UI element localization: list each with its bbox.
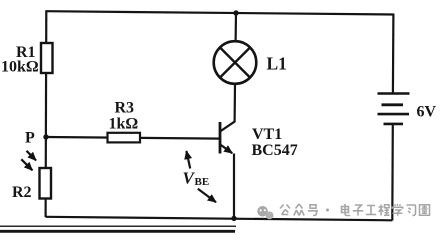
bottom thick rule <box>0 230 235 233</box>
svg-text:BC547: BC547 <box>252 142 298 159</box>
transistor VT1 emitter diagonal with arrow <box>220 144 233 153</box>
bottom thin rule <box>0 225 236 227</box>
svg-text:R2: R2 <box>12 184 32 201</box>
resistor R1 <box>41 43 53 73</box>
svg-text:10kΩ: 10kΩ <box>1 59 39 76</box>
photoresistor R2 <box>40 168 52 199</box>
battery plate 3 long <box>378 113 410 116</box>
lamp L1 stem top <box>235 13 238 42</box>
svg-text:VT1: VT1 <box>252 126 282 143</box>
watermark text 程 <box>379 205 390 216</box>
watermark logo small bubble <box>266 212 274 220</box>
watermark text 学 <box>392 204 402 216</box>
wire: emitter vertical down <box>233 154 235 219</box>
svg-text:P: P <box>25 130 35 147</box>
wire: right vertical rail (top section to battery) <box>392 14 395 94</box>
svg-text:R3: R3 <box>115 100 135 117</box>
watermark text separator dot <box>326 209 329 212</box>
lamp L1 cross line 2 <box>220 48 250 78</box>
battery plate 4 short (bottom) <box>384 123 404 126</box>
light arrow 1 into R2 <box>27 151 37 161</box>
junction dot emitter / bottom rail <box>231 216 236 221</box>
svg-text:6V: 6V <box>417 104 437 121</box>
watermark text 众 <box>294 204 304 216</box>
watermark text 圈 <box>420 205 430 215</box>
svg-text:BE: BE <box>195 176 210 188</box>
svg-text:1kΩ: 1kΩ <box>109 116 139 133</box>
lamp L1 cross line 1 <box>220 48 250 78</box>
transistor VT1 base bar <box>219 122 222 154</box>
watermark text 公 <box>280 205 290 215</box>
V_BE up arrow <box>186 151 190 169</box>
resistor R3 <box>108 133 141 143</box>
wire: top rail from left corner to right corner <box>47 11 394 14</box>
wire: right vertical rail (battery to bottom) <box>391 124 394 221</box>
battery plate 2 short <box>382 103 404 106</box>
watermark logo big bubble <box>257 206 268 217</box>
node P junction dot <box>43 134 48 139</box>
watermark text 子 <box>353 205 363 216</box>
watermark text 习 <box>407 205 416 216</box>
transistor VT1 collector diagonal <box>220 121 236 132</box>
wire: bottom rail <box>46 217 393 221</box>
watermark text 号 <box>308 205 318 216</box>
watermark text 工 <box>366 206 376 215</box>
lamp L1 circle <box>214 41 257 84</box>
battery plate 1 long (top) <box>378 92 410 95</box>
node P wire to R3 <box>46 137 221 139</box>
watermark text 电 <box>342 204 351 216</box>
svg-text:L1: L1 <box>267 54 287 74</box>
lamp L1 stem bottom to collector <box>234 84 237 122</box>
watermark logo eyes <box>260 209 262 211</box>
light arrow 2 into R2 <box>21 159 32 170</box>
wire: left vertical rail <box>44 10 47 217</box>
V_BE down arrow <box>198 189 216 202</box>
junction dot top rail / lamp <box>233 10 238 15</box>
